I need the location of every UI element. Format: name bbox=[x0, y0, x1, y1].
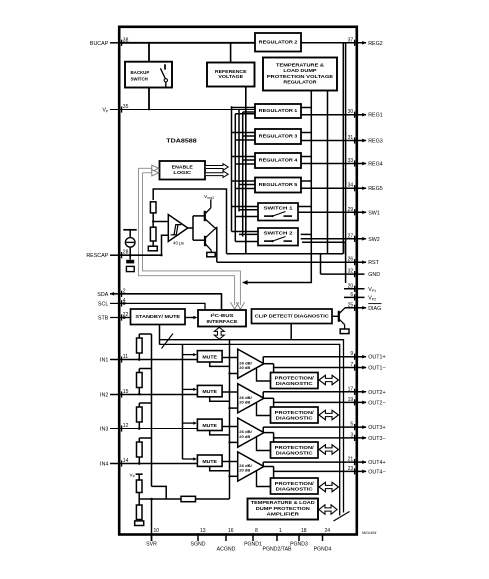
pin number 8 bbox=[255, 528, 258, 534]
svg-text:REG1: REG1 bbox=[368, 113, 383, 119]
regulator 2 block bbox=[255, 33, 301, 52]
op-amp power amplifier 4 bbox=[238, 452, 264, 481]
pin number 19 bbox=[348, 397, 354, 403]
svg-text:37: 37 bbox=[348, 37, 354, 43]
wire SCL into I2C bbox=[119, 303, 205, 309]
wire mute lowpass 3 bbox=[210, 431, 230, 435]
wire standby/mute control drop bbox=[159, 325, 161, 345]
junction RESCAP comparator bbox=[160, 254, 162, 256]
svg-text:OUT4+: OUT4+ bbox=[368, 460, 385, 466]
svg-text:MUTE: MUTE bbox=[202, 389, 217, 394]
temperature regulator output bus bbox=[244, 91, 312, 283]
svg-text:OUT2+: OUT2+ bbox=[368, 390, 385, 396]
pin label OUT2+ bbox=[368, 390, 385, 396]
pin BUCAP (38) wire bbox=[110, 40, 122, 46]
svg-text:24: 24 bbox=[325, 528, 331, 534]
svg-text:BACKUP: BACKUP bbox=[131, 70, 150, 75]
svg-text:IN1: IN1 bbox=[100, 357, 108, 363]
svg-text:11: 11 bbox=[123, 354, 128, 360]
pin number 28 bbox=[123, 250, 129, 256]
pin label GND bbox=[368, 272, 380, 278]
junction feedback 2 bbox=[228, 407, 230, 409]
svg-text:REGULATOR 1: REGULATOR 1 bbox=[259, 108, 298, 113]
pin label PGND1 bbox=[244, 542, 262, 548]
pin number 4 bbox=[123, 298, 126, 304]
switch 2 block bbox=[258, 228, 298, 246]
pin label OUT3- bbox=[368, 436, 385, 442]
svg-text:OUT2−: OUT2− bbox=[368, 400, 385, 406]
wire enable stub upper REG5 bbox=[232, 180, 256, 182]
wire mute gate stub 1 bbox=[183, 353, 198, 356]
svg-text:LOAD DUMP: LOAD DUMP bbox=[283, 68, 316, 73]
wire REG2 output rail B bbox=[345, 43, 347, 283]
junction divider tap bbox=[152, 220, 154, 222]
wire STB into standby/mute bbox=[119, 317, 130, 319]
svg-text:20 dB: 20 dB bbox=[239, 468, 250, 473]
wire Vp rail to regulators bbox=[119, 109, 255, 111]
svg-text:6: 6 bbox=[350, 292, 353, 298]
svg-text:21: 21 bbox=[348, 457, 354, 463]
pin label SVR bbox=[146, 542, 157, 548]
svg-text:27: 27 bbox=[348, 233, 354, 239]
wire enable stub mid REG4 bbox=[243, 159, 255, 161]
pin OUT1- (7) wire bbox=[274, 364, 367, 370]
svg-text:12: 12 bbox=[123, 423, 129, 429]
clip detect / diagnostic block bbox=[252, 309, 333, 324]
svg-text:REGULATOR: REGULATOR bbox=[283, 80, 317, 85]
svg-text:10: 10 bbox=[154, 528, 160, 534]
enable logic input arrow 2 bbox=[143, 170, 159, 176]
pin label REG3 bbox=[368, 138, 383, 144]
pin number 5 bbox=[350, 422, 353, 428]
pin number 29 bbox=[348, 207, 354, 213]
svg-text:AMPLIFIER: AMPLIFIER bbox=[267, 512, 300, 517]
wire mute output 1 bbox=[222, 357, 238, 359]
pin number 2 bbox=[123, 288, 126, 294]
pin RESCAP (28) wire bbox=[110, 252, 122, 258]
drawing code text bbox=[362, 531, 376, 535]
wire OUT2- drop bbox=[273, 398, 275, 407]
wire SVR pin drop bbox=[151, 499, 153, 541]
pin label VP2 bbox=[368, 295, 376, 301]
svg-text:1: 1 bbox=[279, 528, 282, 534]
pin SW1 (29) wire bbox=[298, 209, 367, 215]
enable logic input arrow 1 bbox=[138, 165, 158, 171]
pin number 27 bbox=[348, 233, 354, 239]
wire enable stub upper SW2 bbox=[232, 231, 259, 233]
svg-text:REGULATOR 4: REGULATOR 4 bbox=[259, 158, 298, 163]
wire horizontal rail y254 bbox=[227, 253, 344, 255]
svg-text:INTERFACE: INTERFACE bbox=[207, 319, 238, 324]
svg-text:SWITCH 1: SWITCH 1 bbox=[264, 206, 294, 211]
mute block 3 bbox=[197, 419, 222, 430]
svg-text:31: 31 bbox=[348, 135, 354, 141]
pin number 22 bbox=[123, 312, 129, 318]
pin number 10 bbox=[154, 528, 160, 534]
backup switch bbox=[125, 62, 172, 88]
temperature & load dump protection voltage regulator bbox=[263, 58, 337, 91]
regulator 5 block bbox=[255, 178, 301, 193]
pin number 11 bbox=[123, 354, 128, 360]
wire clip detect sense bbox=[290, 324, 292, 340]
pin number 9 bbox=[350, 351, 353, 357]
svg-text:PGND3: PGND3 bbox=[290, 542, 308, 548]
svg-text:REG4: REG4 bbox=[368, 161, 383, 167]
pin number 6 bbox=[350, 292, 353, 298]
wire comparator supply top bbox=[153, 189, 226, 254]
pin label SW1 bbox=[368, 210, 380, 216]
pin number 21 bbox=[348, 457, 354, 463]
wire mute output 4 bbox=[222, 461, 238, 463]
wire base T1 bbox=[193, 215, 204, 217]
wire enable stub mid SW1 bbox=[239, 209, 258, 211]
wire enable stub lower SW1 bbox=[235, 216, 258, 218]
svg-text:OUT1+: OUT1+ bbox=[368, 355, 385, 361]
current source symbol bbox=[123, 230, 136, 255]
pin label PGND3 bbox=[290, 542, 308, 548]
backup switch text bbox=[131, 70, 150, 82]
wire RESCAP to comparator input bbox=[162, 235, 169, 255]
pin label RESCAP bbox=[86, 253, 108, 259]
svg-text:PGND4: PGND4 bbox=[314, 547, 332, 553]
svg-text:PGND2/TAB: PGND2/TAB bbox=[262, 547, 292, 553]
pin label REG2 bbox=[368, 41, 383, 47]
svg-text:DUMP PROTECTION: DUMP PROTECTION bbox=[256, 506, 310, 511]
wire divider tap to comparator bbox=[153, 221, 168, 223]
svg-text:SVR: SVR bbox=[146, 542, 157, 548]
pin VP (35) wire bbox=[110, 106, 122, 112]
svg-text:TEMPERATURE &: TEMPERATURE & bbox=[276, 62, 325, 67]
pin REG2 (37) wire bbox=[301, 40, 367, 46]
pin OUT2- (19) wire bbox=[274, 399, 367, 405]
svg-text:5: 5 bbox=[350, 422, 353, 428]
temperature regulator output bus 2 bbox=[327, 91, 329, 254]
wire reset node to RST bbox=[216, 227, 218, 262]
svg-text:PGND1: PGND1 bbox=[244, 542, 262, 548]
pin number 1 bbox=[279, 528, 282, 534]
svg-text:18: 18 bbox=[301, 528, 307, 534]
wire amp feedback stub 2 bbox=[230, 407, 238, 409]
node Vp label bottom bbox=[130, 472, 136, 478]
comparator 40us bbox=[168, 215, 188, 242]
svg-text:TEMPERATURE & LOAD: TEMPERATURE & LOAD bbox=[251, 500, 316, 505]
pin number 12 bbox=[123, 423, 129, 429]
svg-text:9: 9 bbox=[350, 351, 353, 357]
pin number 34 bbox=[348, 183, 354, 189]
svg-text:OUT3−: OUT3− bbox=[368, 436, 385, 442]
pin label OUT1- bbox=[368, 365, 385, 371]
svg-text:20 dB: 20 dB bbox=[239, 434, 250, 439]
svg-text:20: 20 bbox=[348, 283, 354, 289]
bus slash left bbox=[162, 334, 174, 349]
pin label SW2 bbox=[368, 237, 380, 243]
wire SW2 lower output bbox=[302, 242, 345, 254]
wire amp output to OUT1+ bbox=[262, 357, 264, 364]
svg-text:IN2: IN2 bbox=[100, 392, 108, 398]
wire BUCAP to REGULATOR 2 bbox=[119, 42, 255, 44]
pin number 35 bbox=[123, 104, 129, 110]
wire amp output to OUT4- bbox=[264, 466, 274, 468]
pin number 24 bbox=[325, 528, 331, 534]
pin label REG4 bbox=[368, 161, 383, 167]
pin number 37 bbox=[348, 37, 354, 43]
wire mute lowpass 2 bbox=[210, 397, 230, 401]
pin number 38 bbox=[123, 37, 129, 43]
control line I2C to enable logic B bbox=[143, 173, 241, 305]
wire GND connector bbox=[320, 254, 322, 274]
pin label IN2 bbox=[100, 392, 108, 398]
wire BUCAP branch down to backup switch bbox=[148, 43, 150, 61]
svg-text:MUTE: MUTE bbox=[202, 423, 217, 428]
pin REG3 (31) wire bbox=[301, 137, 367, 143]
wire enable stub mid REG5 bbox=[239, 184, 255, 186]
pin label ACGND bbox=[217, 547, 236, 553]
pin number 26 bbox=[348, 257, 354, 263]
pin number 31 bbox=[348, 135, 354, 141]
regulator 1 block bbox=[255, 104, 301, 118]
protection bus arrow 3 bbox=[319, 445, 339, 455]
wire reference voltage output bus bbox=[245, 87, 247, 254]
protection bus arrow 4 bbox=[319, 482, 339, 492]
svg-text:PROTECTION/: PROTECTION/ bbox=[275, 481, 315, 486]
wire amp output to OUT2+ bbox=[262, 392, 264, 399]
wire mute lowpass 4 bbox=[210, 466, 230, 470]
transistor Q2 reset driver bbox=[205, 228, 217, 252]
svg-text:34: 34 bbox=[348, 183, 354, 189]
pin DIAG (25) wire bbox=[345, 305, 367, 311]
pin label OUT4+ bbox=[368, 460, 385, 466]
svg-text:40 μs: 40 μs bbox=[173, 240, 185, 245]
svg-text:LOGIC: LOGIC bbox=[173, 170, 192, 175]
svg-text:SWITCH: SWITCH bbox=[131, 77, 148, 82]
svg-text:7: 7 bbox=[350, 362, 353, 368]
regulator 3 block bbox=[255, 129, 301, 144]
pin PGND2/TAB (1) stub bbox=[276, 533, 278, 541]
pin label OUT4- bbox=[368, 469, 385, 475]
backup switch symbol bbox=[160, 64, 167, 87]
svg-text:25: 25 bbox=[348, 302, 354, 308]
pin number 7 bbox=[350, 362, 353, 368]
svg-text:29: 29 bbox=[348, 207, 354, 213]
pin label SGND bbox=[191, 542, 206, 548]
wire OUT3- drop bbox=[273, 433, 275, 442]
wire SDA into I2C bbox=[119, 294, 221, 310]
svg-text:IN3: IN3 bbox=[100, 426, 108, 432]
wire protection sense 4 bbox=[257, 471, 271, 487]
op-amp power amplifier 2 bbox=[238, 384, 264, 413]
pin OUT2+ (17) wire bbox=[263, 389, 366, 395]
svg-text:REGULATOR 5: REGULATOR 5 bbox=[259, 182, 298, 187]
svg-text:23: 23 bbox=[348, 466, 354, 472]
svg-text:ACGND: ACGND bbox=[217, 547, 236, 553]
pin STB direction arrow bbox=[123, 316, 127, 320]
pin OUT4- (23) wire bbox=[274, 468, 367, 474]
arrowhead into I2C B bbox=[236, 302, 244, 309]
pin label IN4 bbox=[100, 461, 108, 467]
svg-text:30: 30 bbox=[348, 109, 354, 115]
I2C-bus interface block bbox=[198, 310, 246, 327]
enable logic block bbox=[160, 161, 206, 180]
regulator 4 block bbox=[255, 153, 301, 168]
wire regulator enable bus 1 bbox=[231, 106, 233, 231]
protection/diagnostic block 2 bbox=[271, 407, 319, 423]
svg-text:OUT4−: OUT4− bbox=[368, 469, 385, 475]
svg-text:REGULATOR 3: REGULATOR 3 bbox=[259, 134, 298, 139]
wire output stub upper SW1 bbox=[298, 206, 311, 208]
wire mute output 3 bbox=[222, 426, 238, 428]
wire amp feedback stub 4 bbox=[230, 475, 238, 477]
svg-text:PROTECTION VOLTAGE: PROTECTION VOLTAGE bbox=[267, 74, 333, 79]
svg-text:20 dB: 20 dB bbox=[239, 400, 250, 405]
wire mute gate stub 4 bbox=[183, 457, 198, 460]
pin SGND (13) stub bbox=[197, 533, 199, 541]
wire protection sense 3 bbox=[257, 437, 271, 451]
pin REG1 (30) wire bbox=[301, 112, 367, 118]
wire regulator enable bus 2 bbox=[234, 114, 236, 242]
pin number 18 bbox=[301, 528, 307, 534]
svg-text:17: 17 bbox=[348, 386, 354, 392]
svg-text:MUTE: MUTE bbox=[202, 459, 217, 464]
protection/diagnostic block 4 bbox=[271, 478, 319, 494]
pin RST (26) wire bbox=[217, 259, 367, 265]
junction IN3 bias bbox=[138, 427, 141, 430]
pin SW2 (27) wire bbox=[301, 236, 367, 242]
wire mute output 2 bbox=[222, 391, 238, 393]
wire amp output to OUT2- bbox=[264, 397, 274, 399]
svg-text:OUT1−: OUT1− bbox=[368, 365, 385, 371]
protection bus arrow 2 bbox=[319, 410, 339, 420]
pin SCL (4) wire bbox=[110, 300, 122, 306]
I2C-bus interface text bbox=[207, 313, 238, 324]
svg-text:REFERENCE: REFERENCE bbox=[215, 69, 247, 74]
protection/diagnostic block 3 bbox=[271, 442, 319, 458]
wire enable stub upper REG3 bbox=[232, 132, 256, 134]
transistor Q3 DIAG output bbox=[332, 308, 345, 329]
pin label PGND4 bbox=[314, 547, 332, 553]
svg-text:ENABLE: ENABLE bbox=[172, 165, 193, 170]
pin number 17 bbox=[348, 386, 354, 392]
wire backup switch to Vp rail bbox=[148, 88, 150, 111]
pin label REG5 bbox=[368, 186, 383, 192]
wire BUCAP branch to reference voltage bbox=[230, 43, 232, 62]
pin REG4 (33) wire bbox=[301, 160, 367, 166]
pin number 3 bbox=[350, 432, 353, 438]
svg-text:33: 33 bbox=[348, 158, 354, 164]
arrow temperature bus to I2C lines bbox=[242, 280, 248, 285]
pin label IN3 bbox=[100, 426, 108, 432]
resistor bias upper bbox=[136, 474, 142, 499]
svg-text:DIAGNOSTIC: DIAGNOSTIC bbox=[276, 451, 313, 456]
svg-text:TDA8588: TDA8588 bbox=[166, 138, 197, 144]
junction bias SVR bbox=[150, 498, 153, 501]
mute block 2 bbox=[197, 385, 222, 396]
wire divider middle bbox=[152, 213, 154, 227]
pin number 16 bbox=[228, 528, 234, 534]
wire base T2 bbox=[193, 239, 204, 241]
temp amplifier bus arrow bbox=[319, 505, 337, 515]
svg-text:PROTECTION/: PROTECTION/ bbox=[275, 445, 315, 450]
pin IN2 (15) wire bbox=[110, 391, 198, 397]
wire enable stub upper REG1 bbox=[232, 107, 256, 109]
svg-text:3: 3 bbox=[350, 432, 353, 438]
junction feedback 1 bbox=[228, 372, 230, 374]
arrowhead into I2C A bbox=[231, 302, 239, 309]
label TDA8588 bbox=[166, 138, 197, 144]
svg-text:OUT3+: OUT3+ bbox=[368, 425, 385, 431]
pin label OUT3+ bbox=[368, 425, 385, 431]
wire enable stub lower REG4 bbox=[235, 163, 255, 165]
svg-text:26: 26 bbox=[348, 257, 354, 263]
junction feedback 4 bbox=[228, 475, 230, 477]
junction IN2 bias bbox=[138, 393, 141, 396]
svg-text:MUTE: MUTE bbox=[202, 354, 217, 359]
wire transistor base rail bbox=[192, 216, 194, 240]
svg-text:19: 19 bbox=[348, 397, 354, 403]
svg-text:REG2: REG2 bbox=[368, 41, 383, 47]
wire output stub upper REG5 bbox=[301, 180, 311, 182]
wire protection sense 2 bbox=[257, 402, 271, 415]
svg-text:REG3: REG3 bbox=[368, 138, 383, 144]
pin STB (22) wire bbox=[110, 314, 122, 320]
svg-text:15: 15 bbox=[123, 389, 129, 395]
wire mute bus lower bbox=[160, 344, 340, 515]
wire OUT4- drop bbox=[273, 467, 275, 479]
wire enable stub lower REG5 bbox=[235, 188, 255, 190]
pin number 20 bbox=[348, 283, 354, 289]
svg-text:Vreg2: Vreg2 bbox=[204, 194, 214, 200]
IC outline TDA8588 bbox=[119, 27, 357, 535]
protection bus arrow 1 bbox=[319, 375, 339, 385]
pin label SDA bbox=[97, 292, 108, 298]
pin label VP bbox=[102, 107, 109, 113]
pin number 14 bbox=[123, 458, 129, 464]
pin SVR (10) stub bbox=[151, 533, 153, 541]
wire regulator enable bus 3 bbox=[238, 110, 240, 212]
bus slash right bbox=[334, 512, 350, 522]
resistor divider upper bbox=[150, 202, 156, 213]
wire enable stub mid SW2 bbox=[239, 233, 258, 235]
svg-text:REG5: REG5 bbox=[368, 186, 383, 192]
svg-text:STB: STB bbox=[98, 315, 109, 321]
resistor bias feedback bbox=[181, 496, 196, 501]
resistor divider lower bbox=[150, 227, 156, 241]
svg-text:SCL: SCL bbox=[98, 301, 108, 307]
pin label STB bbox=[98, 315, 109, 321]
pin label DIAG bbox=[368, 304, 381, 312]
svg-text:SDA: SDA bbox=[97, 292, 108, 298]
standby/mute block bbox=[131, 309, 186, 325]
svg-text:8: 8 bbox=[255, 528, 258, 534]
pin ACGND (16) stub bbox=[225, 533, 227, 541]
wire output stub upper REG4 bbox=[301, 156, 311, 158]
svg-text:20 dB: 20 dB bbox=[239, 365, 250, 370]
pin number 32 bbox=[348, 269, 354, 275]
svg-text:I2C-BUS: I2C-BUS bbox=[211, 313, 234, 318]
pin number 15 bbox=[123, 389, 129, 395]
arrow standby/mute to I2C bbox=[193, 316, 197, 320]
wire output stub upper SW2 bbox=[301, 233, 312, 235]
resistor input bias R2 bbox=[137, 369, 152, 395]
wire enable stub lower REG3 bbox=[235, 139, 255, 141]
svg-text:REGULATOR 2: REGULATOR 2 bbox=[259, 39, 298, 44]
svg-text:DIAGNOSTIC: DIAGNOSTIC bbox=[276, 416, 313, 421]
pin number 23 bbox=[348, 466, 354, 472]
wire amp feedback stub 3 bbox=[230, 441, 238, 443]
control line I2C to enable logic A bbox=[138, 168, 234, 305]
ground Q2 emitter bbox=[207, 252, 215, 256]
value label 40 us bbox=[173, 240, 185, 245]
wire enable stub mid REG3 bbox=[243, 135, 255, 137]
